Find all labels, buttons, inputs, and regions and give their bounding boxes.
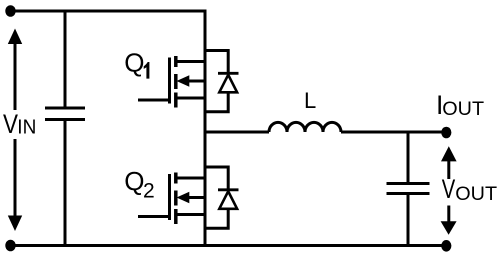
svg-text:V: V: [3, 109, 18, 139]
svg-text:Q: Q: [124, 166, 144, 196]
svg-text:OUT: OUT: [455, 183, 497, 205]
svg-text:V: V: [442, 174, 456, 204]
svg-text:IN: IN: [17, 115, 36, 138]
svg-text:2: 2: [143, 179, 155, 202]
svg-text:Q: Q: [124, 48, 144, 78]
svg-text:OUT: OUT: [442, 98, 484, 120]
svg-text:L: L: [304, 88, 316, 113]
